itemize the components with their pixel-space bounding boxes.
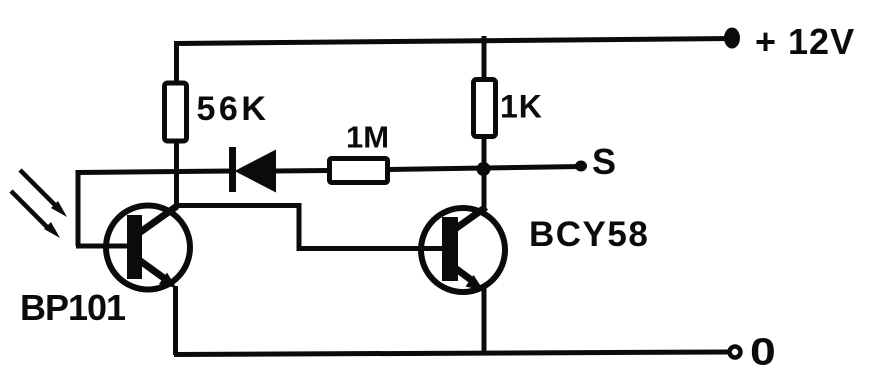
phototransistor Q1 BP101 — [106, 206, 190, 290]
svg-text:1M: 1M — [346, 120, 389, 155]
transistor Q2 BCY58 — [421, 207, 505, 292]
wire: coupling Q1 collector to Q2 base — [176, 206, 443, 249]
wire: +12V top rail — [177, 39, 731, 44]
svg-text:BCY58: BCY58 — [529, 215, 649, 254]
wire: 1M to S terminal — [388, 167, 581, 170]
wire: left corner vertical — [76, 170, 81, 246]
wire: rail down to 1K resistor — [482, 36, 487, 81]
svg-text:0: 0 — [750, 330, 776, 372]
terminal S dot — [575, 161, 587, 172]
wire: diode to 1M resistor — [274, 168, 330, 174]
svg-text:BP101: BP101 — [20, 287, 126, 328]
light arrow 1 — [20, 170, 67, 217]
resistor R1 56K — [165, 83, 187, 141]
node junction dot at 1K/collector — [477, 162, 491, 176]
resistor R3 1M — [330, 159, 388, 183]
wire: rail down to 56K resistor — [174, 41, 179, 84]
wire: Q2 emitter down to 0V rail — [482, 288, 487, 354]
diode D1 — [229, 147, 276, 193]
svg-text:S: S — [592, 141, 616, 182]
wire: Q1 emitter down to 0V rail — [173, 286, 178, 355]
svg-text:56K: 56K — [197, 90, 270, 128]
light arrow 2 — [11, 191, 60, 238]
wire: 56K bottom to BP101 collector node — [174, 141, 179, 208]
terminal +12V dot — [724, 28, 740, 49]
terminal 0 open circle — [730, 347, 741, 358]
wire: BP101 base lead — [76, 244, 130, 249]
resistor R2 1K — [474, 80, 496, 137]
wire: 0V bottom rail — [174, 352, 728, 355]
svg-text:+ 12V: + 12V — [755, 21, 855, 62]
wire: horizontal diode line left segment — [78, 171, 231, 173]
svg-text:1K: 1K — [500, 89, 543, 125]
wire: 1K bottom through junction to BCY58 collector — [482, 136, 487, 209]
